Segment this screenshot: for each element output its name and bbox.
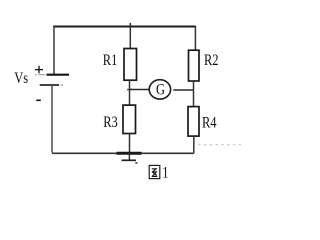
svg-text:Vs: Vs [14, 70, 28, 88]
ground bottom bar [122, 159, 137, 161]
wire R1-R3 connector [129, 80, 131, 105]
svg-text:R3: R3 [103, 113, 118, 131]
resistor R3 [123, 105, 136, 133]
label R4 [202, 114, 217, 132]
ground speck [135, 162, 137, 164]
caption figure glyph 图 [149, 165, 160, 178]
ground stub [128, 153, 130, 160]
wire battery positive lead [53, 26, 55, 74]
label R1 [103, 51, 118, 69]
wire battery negative lead [51, 85, 53, 153]
resistor R1 [124, 49, 137, 81]
ground top bar [117, 152, 142, 155]
wire top bus [53, 26, 196, 28]
minus sign [36, 99, 41, 101]
caption figure number 1 [162, 164, 168, 182]
resistor R4 [188, 107, 199, 137]
svg-text:1: 1 [162, 164, 168, 182]
wire galvanometer left lead [130, 89, 150, 91]
wire R3 bottom stub [129, 134, 131, 154]
plus sign [35, 66, 43, 74]
svg-text:R2: R2 [204, 52, 219, 70]
svg-text:R4: R4 [202, 114, 217, 132]
wire bottom bus [52, 152, 194, 154]
label R2 [204, 52, 219, 70]
node bridge left junction [127, 89, 132, 91]
svg-text:G: G [156, 81, 165, 99]
wire R2 top stub [194, 26, 196, 51]
label G [156, 81, 165, 99]
wire R4 bottom stub [193, 136, 195, 153]
battery Vs bottom plate faint dot [61, 84, 63, 86]
battery Vs top plate faint left part [35, 74, 46, 76]
battery Vs bottom plate [40, 84, 59, 86]
svg-text:R1: R1 [103, 51, 118, 69]
label Vs [14, 70, 28, 88]
wire R1 top stub [129, 23, 131, 49]
label R3 [103, 113, 118, 131]
wire galvanometer right lead [173, 89, 193, 91]
faint dashed construction line [198, 144, 242, 146]
wire R2-R4 connector [193, 81, 195, 107]
galvanometer G circle [149, 80, 170, 99]
battery Vs top plate [47, 74, 70, 76]
resistor R2 [189, 50, 200, 81]
